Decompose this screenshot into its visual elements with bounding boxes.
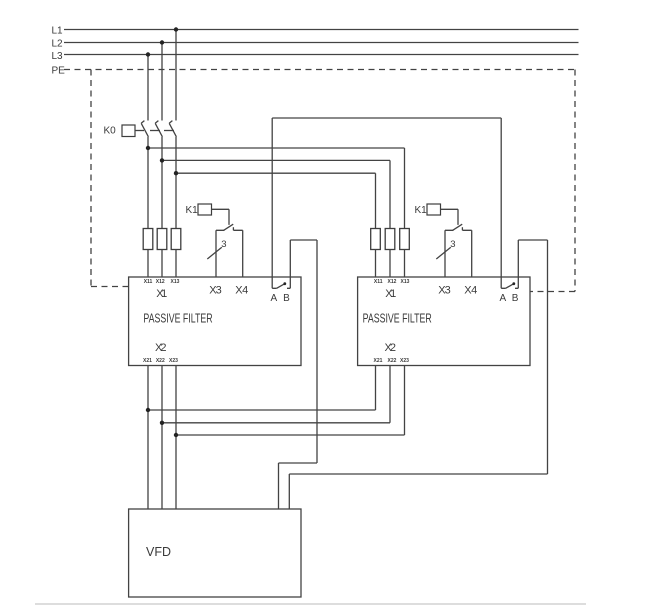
svg-text:A: A — [271, 293, 278, 304]
svg-text:X11: X11 — [144, 279, 153, 285]
svg-text:X21: X21 — [143, 358, 152, 364]
svg-text:X3: X3 — [438, 285, 451, 297]
svg-text:3: 3 — [221, 239, 226, 250]
svg-text:K1: K1 — [415, 205, 428, 216]
svg-text:B: B — [283, 293, 290, 304]
svg-text:X21: X21 — [374, 358, 383, 364]
svg-text:PASSIVE FILTER: PASSIVE FILTER — [363, 312, 432, 326]
svg-text:X1: X1 — [385, 288, 396, 300]
svg-text:L1: L1 — [52, 26, 64, 37]
svg-text:X4: X4 — [464, 285, 477, 297]
svg-text:3: 3 — [450, 239, 455, 250]
svg-text:VFD: VFD — [146, 545, 171, 559]
svg-text:L3: L3 — [52, 51, 64, 62]
svg-text:K0: K0 — [104, 126, 117, 137]
svg-text:X13: X13 — [401, 279, 410, 285]
svg-text:X3: X3 — [209, 285, 222, 297]
svg-text:X2: X2 — [155, 342, 167, 354]
svg-text:X13: X13 — [171, 279, 180, 285]
svg-text:L2: L2 — [52, 39, 64, 50]
svg-text:PASSIVE FILTER: PASSIVE FILTER — [143, 312, 212, 326]
svg-text:K1: K1 — [186, 205, 199, 216]
svg-text:X22: X22 — [156, 358, 165, 364]
svg-text:X23: X23 — [400, 358, 409, 364]
svg-text:X11: X11 — [374, 279, 383, 285]
svg-text:A: A — [500, 293, 507, 304]
svg-text:X22: X22 — [388, 358, 397, 364]
svg-text:X23: X23 — [169, 358, 178, 364]
svg-text:X2: X2 — [385, 342, 397, 354]
svg-text:X12: X12 — [388, 279, 397, 285]
svg-text:B: B — [512, 293, 519, 304]
svg-text:X12: X12 — [156, 279, 165, 285]
svg-text:X4: X4 — [235, 285, 248, 297]
svg-text:X1: X1 — [156, 288, 167, 300]
svg-text:PE: PE — [52, 66, 66, 77]
